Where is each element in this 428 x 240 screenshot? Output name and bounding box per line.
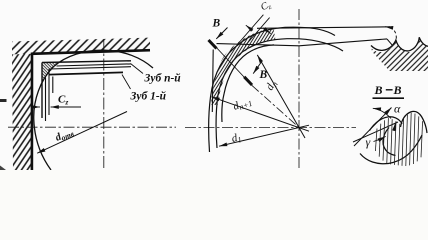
horizontal centerline (185, 127, 356, 129)
c_z extension line B (245, 18, 269, 46)
small arrow on rake face (394, 123, 396, 131)
title underline (373, 97, 405, 99)
section mark B (inner thick stroke) (244, 77, 252, 85)
vertical centerline (298, 9, 300, 170)
section hatch (near vertical fringe strokes) (375, 113, 422, 166)
chip layer crescent hatch (211, 28, 276, 105)
angle gamma arc (374, 136, 386, 141)
dimension line d_1 (219, 125, 309, 146)
vertical tangent line below section mark B (211, 50, 214, 113)
dimension line d_n (257, 55, 305, 138)
tooth 1 profile line (short vertical) (52, 77, 54, 94)
adjacent tooth back hill (401, 111, 428, 133)
svg-text:Зуб 1-й: Зуб 1-й (130, 90, 167, 103)
development line to tooth profile (upper) (257, 27, 390, 29)
dashed rise arc of next tooth (390, 27, 396, 40)
circle d_n (inner arc) (216, 39, 343, 148)
leader to label tooth 1 (122, 75, 131, 90)
tooth 1 profile line (horizontal, thicker) (49, 72, 124, 74)
svg-text:α: α (394, 102, 401, 116)
cut layer fine hatch in corner (43, 63, 60, 82)
section plane B-B trace (radial thin line) (214, 45, 252, 86)
leader to label tooth n (131, 64, 144, 74)
c_z extension line A (238, 15, 264, 44)
scan artifact corner blob (0, 166, 6, 171)
gullet bottom curve (360, 135, 422, 164)
second reference line (353, 122, 398, 142)
broach body hatch under teeth (372, 39, 428, 72)
workpiece hatched area (left band) (12, 54, 33, 170)
tooth n profile line (vertical V1) (41, 63, 43, 119)
title dash (386, 89, 393, 91)
vertical centerline of left view (103, 39, 105, 170)
arrow at dashed arc start (385, 26, 391, 29)
scan artifact tick at left edge (0, 99, 7, 102)
svg-text:γ: γ (366, 135, 371, 149)
tangent line at d_1 top (to section plane mark) (217, 44, 300, 46)
back reference line with arrow (354, 108, 392, 147)
rake face concave curve (383, 128, 396, 156)
c_z arrow lower-right (263, 28, 271, 34)
tooth n profile line (horizontal L1) (42, 61, 131, 63)
section plane B-B trace (dash-dot continuation to center) (252, 86, 299, 128)
horizontal centerline of left view (8, 126, 176, 128)
development line to tooth profile (lower) (299, 39, 387, 46)
circle d_n+1 (outer arc) (209, 27, 335, 152)
tooth n+2 profile line (horizontal L3) (49, 67, 131, 69)
workpiece edge (thick L line) (32, 50, 150, 170)
tooth n+2 profile line (vertical V3) (48, 69, 50, 115)
c_z arrow upper-left (246, 25, 253, 30)
hole circle d_otv (arc) (34, 50, 153, 170)
workpiece hatched area (top band) (12, 38, 150, 55)
tooth n+1 profile line (horizontal L2) (57, 64, 132, 66)
svg-text:В: В (374, 83, 383, 97)
tooth face line from lower development line (387, 39, 392, 45)
tooth n+1 profile line (vertical V2) (45, 78, 47, 122)
angle alpha arc with arrow (373, 108, 391, 118)
tooth back dome curve (370, 117, 403, 131)
section arrow B (outer) (216, 28, 227, 39)
dimension C_z (left view): left arrow (32, 106, 40, 108)
svg-text:Зуб n-й: Зуб n-й (144, 72, 182, 85)
section arrow B (inner) (253, 61, 262, 74)
circle d_1 (innermost arc) (222, 45, 274, 122)
dimension C_z (left view): right arrow with tail (51, 106, 81, 108)
svg-text:В: В (212, 18, 221, 30)
dimension line d_n+1 (212, 97, 310, 131)
section mark B (outer thick stroke) (209, 40, 217, 49)
leader/dimension d_otv (37, 112, 127, 154)
svg-text:В: В (393, 83, 402, 97)
teeth back scallops (371, 37, 428, 51)
